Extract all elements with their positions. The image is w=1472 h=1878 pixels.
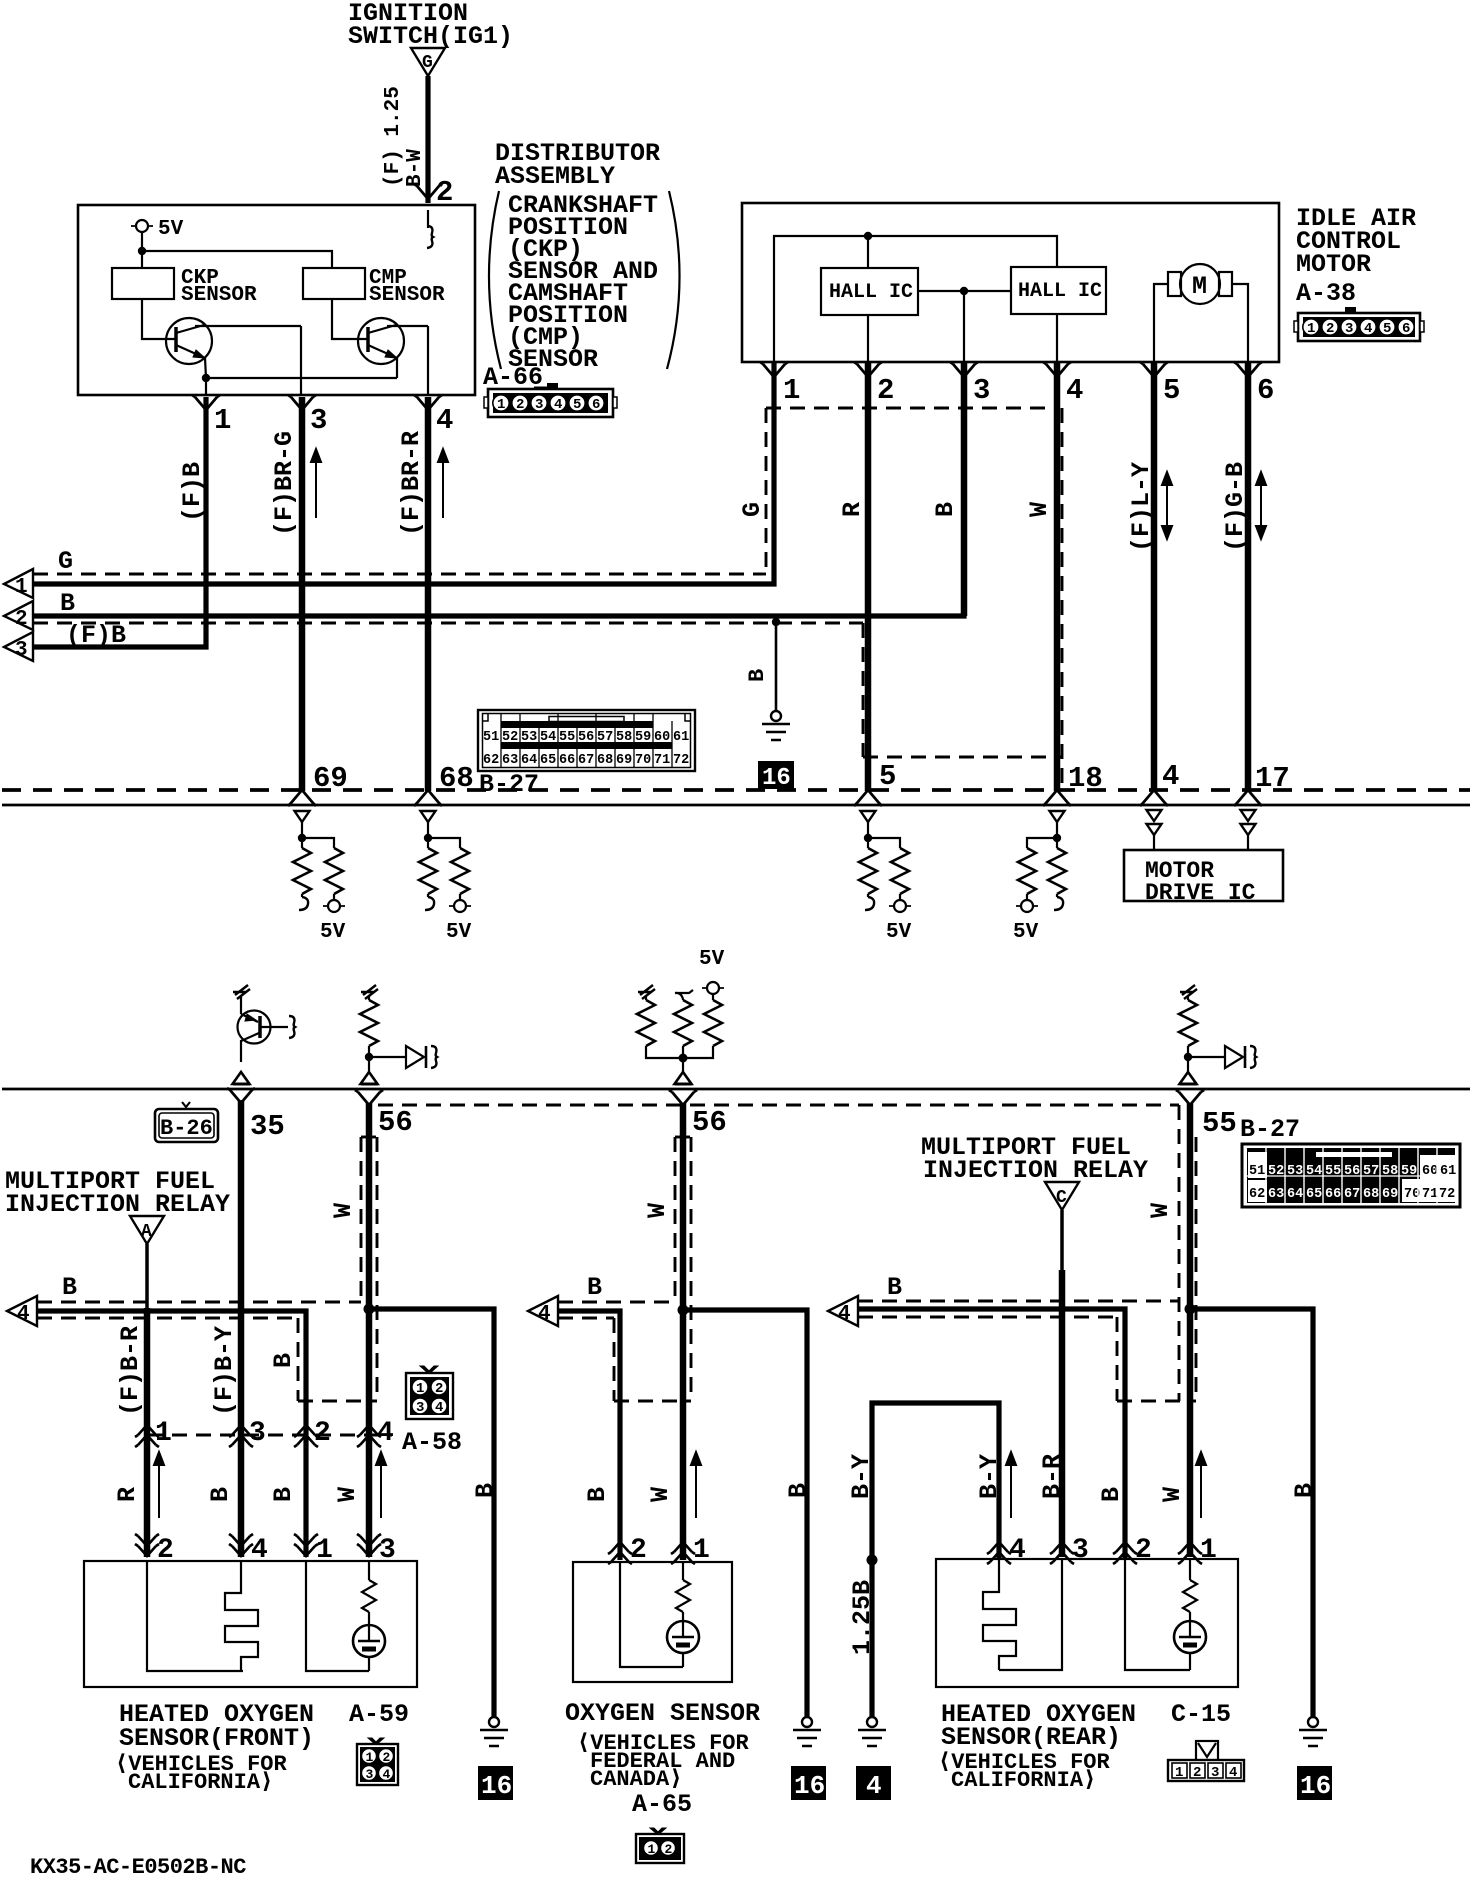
svg-text:16: 16 (794, 1771, 825, 1801)
svg-text:2: 2 (630, 1535, 647, 1566)
svg-text:4: 4 (838, 1303, 851, 1326)
svg-text:(F)B-Y: (F)B-Y (210, 1326, 239, 1416)
ECU2 connector dashed line (378, 1104, 1179, 1107)
svg-text:58: 58 (616, 730, 632, 745)
svg-text:69: 69 (313, 762, 348, 795)
ECU2 resistor+diode (pin 55) (1179, 985, 1256, 1084)
arrow up front R (154, 1452, 164, 1518)
svg-text:G: G (58, 547, 73, 576)
svg-text:W: W (1025, 502, 1054, 517)
A-59 pin 1 (294, 1534, 333, 1566)
svg-text:16: 16 (1300, 1771, 1331, 1801)
node hall supply (864, 232, 872, 240)
svg-text:B-R: B-R (1038, 1454, 1067, 1499)
svg-text:52: 52 (502, 730, 518, 745)
ignition switch label (348, 0, 513, 51)
svg-text:(F)G-B: (F)G-B (1221, 462, 1250, 552)
shield dashes front group (37, 1301, 361, 1304)
page arrow 4 (federal) (528, 1273, 602, 1326)
svg-text:R: R (838, 502, 867, 517)
idle air control motor box (742, 203, 1279, 362)
wire B front O2 ground branch (37, 1311, 306, 1557)
shield ground tap node (772, 618, 780, 626)
svg-text:2: 2 (1193, 1765, 1201, 1781)
svg-text:SENSOR: SENSOR (181, 284, 257, 307)
A-65 sensor ground path (620, 1562, 683, 1667)
connector C-15 icon (1168, 1741, 1244, 1781)
svg-text:(F)L-Y: (F)L-Y (1127, 462, 1156, 552)
A-65 sensor cell (667, 1562, 699, 1667)
wire emitter to pin 1 (205, 378, 207, 395)
svg-text:B-27: B-27 (1240, 1115, 1300, 1144)
arrow up federal W (691, 1452, 701, 1518)
wire hall1 out to pin 2 (867, 315, 869, 362)
svg-text:A-59: A-59 (349, 1700, 409, 1729)
shield dashes rear group (858, 1300, 1179, 1303)
double arrow beside G-B (1256, 472, 1266, 539)
wire B hall link down (961, 363, 968, 616)
svg-text:4: 4 (1229, 1765, 1237, 1781)
A-59 sensor cell (353, 1561, 385, 1671)
svg-text:3: 3 (1072, 1535, 1089, 1566)
arrow up front W (376, 1452, 386, 1518)
page arrow 4 (rear) (828, 1273, 902, 1326)
node B-Y splice (867, 1555, 878, 1566)
svg-text:60: 60 (1422, 1164, 1438, 1179)
node hall link (960, 287, 968, 295)
shield dashes federal group (558, 1301, 675, 1304)
svg-text:1: 1 (155, 1418, 172, 1449)
svg-text:A: A (141, 1222, 152, 1242)
wire motor right to pin 6 (1232, 284, 1248, 362)
svg-text:3: 3 (1211, 1765, 1219, 1781)
svg-text:W: W (1146, 1203, 1175, 1218)
5V supply in distributor (131, 218, 184, 268)
svg-text:W: W (333, 1487, 362, 1502)
shield dashed around hall wires (766, 407, 1060, 410)
svg-text:54: 54 (540, 730, 556, 745)
svg-text:M: M (1192, 272, 1207, 301)
svg-text:51: 51 (483, 730, 499, 745)
svg-text:A-65: A-65 (632, 1790, 692, 1819)
distributor pin 4 (414, 395, 453, 437)
ground ref 16 federal (791, 1766, 826, 1801)
wire hall2 out to pin 4 (1056, 314, 1058, 362)
svg-text:5V: 5V (886, 921, 912, 944)
ECU terminal 68 pullup (419, 811, 472, 944)
node: emitter junction (202, 374, 210, 382)
svg-text:B: B (62, 1273, 77, 1302)
svg-text:64: 64 (521, 753, 537, 768)
svg-text:SENSOR(REAR): SENSOR(REAR) (941, 1723, 1121, 1752)
ECU case solid line (2, 804, 1470, 807)
page connector arrow 1 (4, 569, 33, 599)
wire B bus (33, 362, 964, 618)
wire collector Q2 to pin 4 (427, 326, 429, 395)
connector B-27 (upper) (478, 710, 695, 799)
ECU pin 69 (288, 762, 348, 806)
wire relay A down (145, 1244, 149, 1308)
wire (F)B to distributor pin 1 (33, 397, 206, 650)
relay node A (130, 1216, 164, 1244)
connector A-58 icon (402, 1366, 462, 1457)
A-58 pin 4 (357, 1418, 394, 1449)
svg-text:61: 61 (673, 730, 689, 745)
arrow up beside BR-G (311, 449, 321, 518)
ECU terminal 5 pullup (859, 811, 912, 944)
ECU terminal 17 to motor drive (1241, 810, 1256, 850)
svg-text:1: 1 (497, 397, 505, 413)
node: 5V junction (138, 247, 146, 255)
HO2S rear box C-15 (936, 1559, 1238, 1687)
A-59 heater element (225, 1561, 258, 1671)
relay node C (1045, 1182, 1079, 1210)
ground ref 4 rear heater (856, 1766, 891, 1801)
svg-text:2: 2 (157, 1535, 174, 1566)
svg-text:B: B (587, 1273, 602, 1302)
caption HO2S rear (938, 1700, 1231, 1793)
svg-text:1: 1 (214, 404, 231, 437)
svg-text:59: 59 (635, 730, 651, 745)
svg-text:G: G (422, 53, 433, 73)
svg-text:A-38: A-38 (1296, 279, 1356, 308)
svg-text:35: 35 (250, 1110, 285, 1143)
svg-text:57: 57 (597, 730, 613, 745)
svg-text:65: 65 (1306, 1187, 1322, 1202)
wire B-R to C-15 pin 3 (1059, 1270, 1066, 1557)
svg-text:5: 5 (573, 397, 581, 413)
A-59 heater ground path (147, 1561, 243, 1671)
wire 56b down to A-65 pin 1 (680, 1103, 687, 1560)
svg-text:2: 2 (516, 397, 524, 413)
svg-text:HALL IC: HALL IC (829, 281, 913, 304)
wire to hall IC 1 (867, 236, 869, 268)
svg-text:51: 51 (1249, 1164, 1265, 1179)
C-15 heater element (983, 1559, 1016, 1670)
ECU pin 68 (414, 762, 474, 806)
svg-text:53: 53 (521, 730, 537, 745)
svg-text:72: 72 (1439, 1187, 1455, 1202)
svg-text:5V: 5V (1013, 921, 1039, 944)
wire 56a down to A-59 pin 3 (366, 1103, 373, 1557)
svg-text:2: 2 (1135, 1535, 1152, 1566)
svg-text:68: 68 (439, 762, 474, 795)
svg-text:5V: 5V (320, 921, 346, 944)
connector A-59 icon (357, 1738, 398, 1785)
svg-text:3: 3 (249, 1418, 266, 1449)
svg-text:INJECTION RELAY: INJECTION RELAY (5, 1190, 230, 1219)
ECU2 pin 55 (1176, 1090, 1237, 1140)
svg-text:B: B (931, 502, 960, 517)
svg-text:1: 1 (648, 1842, 656, 1857)
CMP sensor block (303, 267, 445, 307)
wire G bus (33, 362, 774, 584)
svg-text:4: 4 (251, 1535, 268, 1566)
svg-text:A-58: A-58 (402, 1428, 462, 1457)
svg-text:C-15: C-15 (1171, 1700, 1231, 1729)
svg-text:1: 1 (15, 576, 28, 599)
svg-text:SENSOR: SENSOR (369, 284, 445, 307)
svg-text:B-Y: B-Y (847, 1454, 876, 1499)
svg-text:2: 2 (435, 1381, 443, 1397)
connector A-65 icon (636, 1828, 684, 1863)
wire B to ground 16 (federal) (683, 1310, 807, 1717)
svg-text:55: 55 (1325, 1164, 1341, 1179)
multiport fuel injection relay C caption (921, 1133, 1148, 1185)
svg-text:1: 1 (1200, 1535, 1217, 1566)
svg-text:(F)BR-R: (F)BR-R (397, 431, 426, 536)
svg-text:64: 64 (1287, 1187, 1303, 1202)
svg-text:B: B (269, 1487, 298, 1502)
ECU2 pin 56 (fed O2) (669, 1090, 727, 1139)
IAC pin 1 (760, 362, 800, 407)
A-59 sensor ground path (306, 1561, 369, 1671)
svg-text:4: 4 (1066, 374, 1083, 407)
wire B federal O2 (558, 1311, 620, 1560)
svg-text:1: 1 (693, 1535, 710, 1566)
svg-text:4: 4 (554, 397, 562, 413)
svg-text:2: 2 (314, 1418, 331, 1449)
arrow up rear B-Y (1006, 1452, 1016, 1518)
svg-text:W: W (643, 1203, 672, 1218)
svg-text:3: 3 (973, 374, 990, 407)
svg-text:56: 56 (578, 730, 594, 745)
ground rear heater (858, 1717, 886, 1746)
wire stub with hook inside distributor (427, 210, 433, 248)
svg-text:B: B (269, 1353, 298, 1368)
svg-text:72: 72 (673, 753, 689, 768)
svg-text:5: 5 (879, 760, 896, 793)
svg-text:4: 4 (1162, 760, 1179, 793)
page connector arrow 3 (4, 632, 33, 662)
svg-text:SWITCH(IG1): SWITCH(IG1) (348, 22, 513, 51)
svg-text:67: 67 (578, 753, 594, 768)
svg-text:56: 56 (1344, 1164, 1360, 1179)
svg-text:1.25B: 1.25B (848, 1580, 877, 1655)
node 56a / B junction (364, 1304, 375, 1315)
wire emitter bus (206, 377, 397, 379)
svg-text:(F)B: (F)B (178, 462, 207, 522)
svg-text:1: 1 (1175, 1765, 1183, 1781)
svg-text:55: 55 (1202, 1107, 1237, 1140)
svg-text:4: 4 (866, 1771, 882, 1801)
distributor assembly caption (489, 139, 680, 374)
ground front O2 (480, 1717, 508, 1746)
ground ref 16 front (478, 1766, 513, 1801)
arrow up rear W (1196, 1452, 1206, 1518)
A-58 pin 3 (229, 1418, 266, 1449)
svg-text:W: W (329, 1203, 358, 1218)
svg-text:70: 70 (635, 753, 651, 768)
svg-text:4: 4 (435, 1400, 443, 1416)
svg-text:3: 3 (310, 404, 327, 437)
svg-text:DRIVE IC: DRIVE IC (1145, 880, 1256, 906)
C-15 sensor cell (1174, 1559, 1206, 1670)
svg-text:56: 56 (378, 1106, 413, 1139)
wire B-W from ignition to distributor pin 2 (382, 76, 453, 209)
svg-text:C: C (1056, 1188, 1067, 1208)
connector A-66 (483, 363, 617, 417)
svg-text:5V: 5V (158, 218, 184, 241)
svg-text:66: 66 (1325, 1187, 1341, 1202)
svg-text:4: 4 (377, 1418, 394, 1449)
transistor Q1 (CKP output) (142, 299, 301, 378)
svg-text:71: 71 (654, 753, 670, 768)
svg-text:R: R (113, 1487, 142, 1502)
A-58 pin 1 (135, 1418, 172, 1449)
IAC pin 2 (854, 362, 894, 407)
hall IC 1 (821, 268, 918, 315)
ECU terminal 69 pullup (293, 811, 346, 944)
svg-text:(F) 1.25: (F) 1.25 (382, 86, 405, 187)
svg-text:61: 61 (1440, 1164, 1456, 1179)
svg-text:4: 4 (1009, 1535, 1026, 1566)
svg-text:60: 60 (654, 730, 670, 745)
svg-text:B: B (745, 669, 770, 682)
svg-text:B: B (471, 1483, 500, 1498)
svg-text:B-W: B-W (404, 149, 427, 187)
distributor pin 1 (192, 395, 231, 437)
C-15 pin 3 (1050, 1535, 1089, 1566)
C-15 heater ground path (999, 1559, 1062, 1670)
ECU2 case solid line (2, 1088, 1470, 1091)
idle air control motor caption (1296, 204, 1416, 308)
distributor assembly box (78, 205, 475, 395)
svg-text:63: 63 (502, 753, 518, 768)
CKP sensor block (112, 267, 257, 307)
ECU terminal 18 pullup (1013, 811, 1066, 944)
svg-text:1: 1 (416, 1381, 424, 1397)
page connector arrow 2 (4, 601, 33, 631)
ECU pin 18 (1043, 762, 1103, 806)
svg-text:53: 53 (1287, 1164, 1303, 1179)
multiport fuel injection relay A caption (5, 1167, 230, 1219)
svg-text:B: B (784, 1483, 813, 1498)
svg-text:KX35-AC-E0502B-NC: KX35-AC-E0502B-NC (30, 1855, 246, 1878)
ECU boundary dashed line (2, 788, 1470, 792)
svg-text:68: 68 (597, 753, 613, 768)
ECU2 pin 56 (front O2) (355, 1090, 413, 1139)
IAC pin 4 (1043, 362, 1083, 407)
C-15 sensor ground path (1125, 1559, 1190, 1670)
svg-text:3: 3 (1345, 321, 1353, 337)
svg-text:62: 62 (1249, 1187, 1265, 1202)
ground ref 16 (758, 761, 794, 792)
svg-text:5V: 5V (699, 948, 725, 971)
svg-text:B-26: B-26 (160, 1116, 213, 1141)
svg-text:56: 56 (692, 1106, 727, 1139)
node 55 / B junction (1185, 1304, 1196, 1315)
wire B rear O2 (858, 1309, 1125, 1560)
wire B to ground 16 (rear) (1190, 1309, 1313, 1717)
ground rear O2 (1299, 1717, 1327, 1746)
svg-text:6: 6 (592, 397, 600, 413)
ground ref 16 rear (1297, 1766, 1332, 1801)
svg-text:69: 69 (1382, 1187, 1398, 1202)
svg-text:3: 3 (366, 1767, 374, 1782)
svg-text:W: W (646, 1487, 675, 1502)
ground federal O2 (793, 1717, 821, 1746)
wire hall supply bus (774, 236, 1057, 362)
svg-text:65: 65 (540, 753, 556, 768)
svg-text:B: B (1097, 1487, 1126, 1502)
wire (F)L-Y motor down (1151, 363, 1158, 791)
svg-text:54: 54 (1306, 1164, 1322, 1179)
page arrow 4 (front) (7, 1273, 77, 1326)
svg-text:SENSOR(FRONT): SENSOR(FRONT) (119, 1724, 314, 1753)
svg-text:18: 18 (1068, 762, 1103, 795)
svg-text:57: 57 (1363, 1164, 1379, 1179)
svg-text:17: 17 (1255, 762, 1290, 795)
caption O2 federal (565, 1699, 760, 1819)
double arrow beside L-Y (1162, 472, 1172, 539)
wire (F)B-R to A-58 pin 1 / A-59 pin 2 (144, 1308, 151, 1557)
svg-text:ASSEMBLY: ASSEMBLY (495, 162, 615, 191)
svg-text:B: B (1290, 1483, 1319, 1498)
svg-text:B: B (583, 1487, 612, 1502)
svg-text:1: 1 (366, 1750, 374, 1765)
A-65 pin 2 (608, 1535, 647, 1566)
svg-text:67: 67 (1344, 1187, 1360, 1202)
svg-text:1: 1 (783, 374, 800, 407)
ECU2 resistor+diode (pin 56a) (360, 985, 437, 1084)
svg-text:4: 4 (17, 1303, 30, 1326)
A-59 pin 2 (135, 1534, 174, 1566)
svg-text:4: 4 (1364, 321, 1372, 337)
wire 55 down to C-15 pin 1 (1187, 1103, 1194, 1557)
connector B-27 (lower) (1242, 1144, 1460, 1207)
IAC pin 3 (950, 362, 990, 407)
svg-text:2: 2 (1326, 321, 1334, 337)
svg-text:HALL IC: HALL IC (1018, 280, 1102, 303)
ground (shield) (762, 711, 790, 740)
svg-text:G: G (738, 502, 767, 517)
svg-text:B-27: B-27 (479, 770, 539, 799)
wire R hall1 down (865, 363, 872, 791)
wire distributor pin 3 down (299, 397, 306, 791)
distributor pin 3 (288, 395, 327, 437)
wire B to ground 16 (front) (369, 1309, 494, 1717)
wire W hall2 down (1054, 363, 1061, 791)
svg-text:1: 1 (316, 1535, 333, 1566)
wire B-Y loop rear heater (872, 1403, 999, 1717)
svg-text:4: 4 (436, 404, 453, 437)
wire shield to ground (775, 622, 778, 711)
wire motor left to pin 5 (1154, 284, 1168, 362)
svg-text:68: 68 (1363, 1187, 1379, 1202)
power node G (ignition switch IG1) (411, 48, 445, 76)
svg-text:W: W (1158, 1487, 1187, 1502)
wire 35 down to A-59 pin 4 (238, 1100, 245, 1557)
svg-text:B: B (887, 1273, 902, 1302)
svg-text:71: 71 (1422, 1187, 1438, 1202)
svg-text:2: 2 (877, 374, 894, 407)
svg-text:2: 2 (665, 1842, 673, 1857)
wire hall link to pin 3 (963, 291, 965, 362)
svg-text:OXYGEN SENSOR: OXYGEN SENSOR (565, 1699, 760, 1728)
svg-text:5V: 5V (446, 921, 472, 944)
wire collector Q1 to pin 3 (300, 326, 302, 395)
connector A-58 dashed line (148, 1434, 392, 1437)
caption HO2S front (115, 1700, 409, 1795)
svg-text:6: 6 (1257, 374, 1274, 407)
svg-text:52: 52 (1268, 1164, 1284, 1179)
svg-text:MOTOR: MOTOR (1296, 250, 1371, 279)
C-15 pin 4 (987, 1535, 1026, 1566)
svg-text:58: 58 (1382, 1164, 1398, 1179)
A-58 pin 2 (294, 1418, 331, 1449)
motor drive IC box (1124, 850, 1283, 906)
